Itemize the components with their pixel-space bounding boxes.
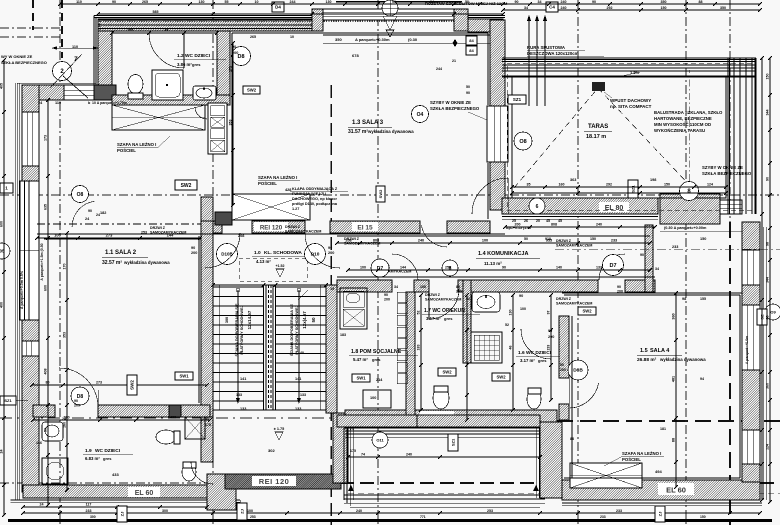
svg-text:SW2: SW2 xyxy=(582,309,592,314)
small box left 1 xyxy=(0,183,13,193)
bottom outer offset lines xyxy=(11,499,241,501)
svg-text:133: 133 xyxy=(295,407,301,411)
right wall outer lines xyxy=(762,227,764,500)
shelves on pom right wall xyxy=(397,292,407,302)
wall top window pier left xyxy=(312,9,323,31)
svg-text:124: 124 xyxy=(766,444,770,450)
svg-text:34: 34 xyxy=(394,285,398,289)
svg-text:244: 244 xyxy=(436,67,442,71)
svg-text:363: 363 xyxy=(570,178,576,182)
svg-text:117: 117 xyxy=(86,503,92,507)
label EL80 xyxy=(599,202,629,212)
svg-text:240: 240 xyxy=(561,6,567,10)
top roof edge line xyxy=(336,1,462,3)
svg-text:160: 160 xyxy=(559,183,565,187)
wall stairs left xyxy=(201,221,213,417)
window band right of pier xyxy=(720,200,742,214)
svg-text:74: 74 xyxy=(350,427,354,431)
door bubble D10 xyxy=(305,244,326,265)
patio right face lines xyxy=(536,428,538,498)
svg-text:O9: O9 xyxy=(770,309,776,314)
wall sala4 left top xyxy=(645,225,653,292)
kitchen counter pom xyxy=(340,288,367,329)
wall vert at stair hall right xyxy=(333,413,348,483)
svg-text:90: 90 xyxy=(519,294,523,298)
svg-text:D7: D7 xyxy=(377,266,384,272)
svg-text:428: 428 xyxy=(285,188,291,192)
shower wc16 xyxy=(471,332,502,363)
svg-text:+1.52: +1.52 xyxy=(275,264,284,268)
svg-text:481: 481 xyxy=(672,376,676,382)
svg-text:180: 180 xyxy=(63,422,67,428)
corridor upper dim chain right xyxy=(505,226,655,228)
box sz1 terrace xyxy=(628,180,638,198)
svg-text:678: 678 xyxy=(352,53,359,58)
svg-text:208: 208 xyxy=(238,234,244,238)
chimney pier block xyxy=(660,194,720,224)
bubble right edge xyxy=(765,304,780,320)
svg-text:PŁATFORMY SCHODOWEJ: PŁATFORMY SCHODOWEJ xyxy=(295,305,299,354)
door arc sala2 xyxy=(72,201,94,227)
svg-text:1.1 SALA 2: 1.1 SALA 2 xyxy=(105,250,137,256)
washer wc19 xyxy=(42,458,68,484)
svg-text:BALUSTRADA SZKLANA, SZKŁO: BALUSTRADA SZKLANA, SZKŁO xyxy=(654,110,723,115)
bubble 6 terrace xyxy=(529,198,545,214)
svg-text:SAMOZAMYKACZEM: SAMOZAMYKACZEM xyxy=(344,242,380,246)
small arc wc12 door lower xyxy=(195,107,207,119)
svg-text:5.47 m²: 5.47 m² xyxy=(353,357,368,362)
sz1 box bottom mid xyxy=(448,434,458,451)
corridor face lines xyxy=(337,276,655,278)
window left small xyxy=(22,341,39,356)
svg-text:gres: gres xyxy=(444,316,453,321)
shower wc12 xyxy=(152,70,183,100)
svg-text:90: 90 xyxy=(44,428,48,432)
svg-text:200: 200 xyxy=(560,368,566,372)
wall bottom sala4 xyxy=(562,480,760,500)
svg-text:SALA 4: SALA 4 xyxy=(650,348,670,354)
door bubble D8 top xyxy=(232,47,251,66)
toilet wc19 b xyxy=(182,463,196,481)
svg-text:KL. SCHODOWA: KL. SCHODOWA xyxy=(264,250,302,256)
svg-text:50: 50 xyxy=(311,317,316,323)
svg-text:273: 273 xyxy=(106,233,113,238)
svg-text:150: 150 xyxy=(766,74,770,80)
svg-text:240: 240 xyxy=(356,509,362,513)
wall terrace left xyxy=(490,20,505,210)
svg-text:24: 24 xyxy=(40,503,44,507)
svg-text:110: 110 xyxy=(76,0,82,4)
svg-text:26.88 m²: 26.88 m² xyxy=(637,357,657,363)
svg-text:25: 25 xyxy=(512,219,516,223)
patio corner arrows xyxy=(348,485,354,491)
door arc to terrace xyxy=(472,178,508,214)
svg-text:SZKŁA BEZPIECZNEGO: SZKŁA BEZPIECZNEGO xyxy=(702,171,752,176)
landing dashes xyxy=(239,258,307,281)
door arc D10B xyxy=(205,233,240,268)
svg-text:O8: O8 xyxy=(519,139,526,145)
svg-text:4.13 m²: 4.13 m² xyxy=(256,259,271,264)
svg-text:200: 200 xyxy=(232,51,238,55)
svg-text:21: 21 xyxy=(452,59,456,63)
window right wall upper xyxy=(742,250,760,285)
svg-text:DESZCZOWA 120x120cm: DESZCZOWA 120x120cm xyxy=(527,51,579,56)
svg-text:233: 233 xyxy=(672,245,678,249)
svg-text:35: 35 xyxy=(527,183,531,187)
dim chain right xyxy=(769,58,771,502)
svg-text:PŁATFORMY SCHODOWEJ: PŁATFORMY SCHODOWEJ xyxy=(240,305,244,354)
svg-text:133: 133 xyxy=(596,266,602,270)
sala3 left dim chain vertical xyxy=(232,43,234,205)
svg-text:200: 200 xyxy=(328,251,334,255)
svg-text:100: 100 xyxy=(370,396,376,400)
svg-text:90: 90 xyxy=(74,399,78,403)
svg-text:124: 124 xyxy=(707,183,713,187)
corridor end dim chain xyxy=(550,295,552,400)
svg-text:A parquet=+0.0m: A parquet=+0.0m xyxy=(745,336,749,364)
room face lines sala4 xyxy=(564,294,740,296)
wall wc12 bottom xyxy=(112,95,230,105)
svg-text:DRZWI Z: DRZWI Z xyxy=(425,293,441,297)
label sz1 left xyxy=(508,95,526,104)
dotted outer band top xyxy=(98,20,503,22)
grid axis line y483 left xyxy=(0,482,340,484)
wall top outer edge xyxy=(98,19,503,21)
svg-text:155: 155 xyxy=(700,297,706,301)
svg-text:± 1.75: ± 1.75 xyxy=(274,427,285,431)
sw2 box wc opiekun xyxy=(438,368,456,376)
svg-text:350: 350 xyxy=(720,6,726,10)
svg-text:771: 771 xyxy=(420,515,426,519)
svg-text:100: 100 xyxy=(520,307,526,311)
wall left lower xyxy=(22,356,39,492)
svg-text:94: 94 xyxy=(700,377,704,381)
svg-text:ŚCIANA DO POBIERANIA SE: ŚCIANA DO POBIERANIA SE xyxy=(289,304,294,357)
svg-text:360: 360 xyxy=(672,313,676,319)
top small box d4 xyxy=(272,2,284,12)
svg-text:90: 90 xyxy=(328,246,332,250)
svg-text:600: 600 xyxy=(0,221,4,227)
svg-text:6.83 m²: 6.83 m² xyxy=(85,456,100,461)
svg-text:34: 34 xyxy=(538,0,542,4)
svg-text:50: 50 xyxy=(466,85,470,89)
door arc wc12 xyxy=(149,33,184,68)
svg-text:90: 90 xyxy=(560,363,564,367)
top wall inner dense lines xyxy=(98,24,312,26)
label REI120 on wall xyxy=(254,222,288,231)
svg-text:344: 344 xyxy=(766,110,770,116)
section line x331 xyxy=(330,85,332,525)
svg-text:52: 52 xyxy=(417,311,421,315)
svg-text:24: 24 xyxy=(0,450,4,454)
svg-text:SZAFA NA LEŻNO I: SZAFA NA LEŻNO I xyxy=(117,142,156,147)
right secondary dim chain xyxy=(761,58,763,500)
svg-text:94: 94 xyxy=(430,0,434,4)
dim chain top xyxy=(60,3,760,5)
wall pom bottom xyxy=(337,415,417,427)
wall bottom step block xyxy=(207,474,236,510)
svg-text:1.2 WC DZIECI: 1.2 WC DZIECI xyxy=(177,53,211,59)
label EL60 bottom-left xyxy=(128,487,160,497)
shower wc19 xyxy=(185,417,205,439)
svg-text:10: 10 xyxy=(255,0,259,4)
wall stairs right xyxy=(326,285,337,413)
svg-text:214: 214 xyxy=(376,378,383,382)
svg-text:133: 133 xyxy=(236,393,242,397)
svg-text:141: 141 xyxy=(295,377,301,381)
svg-text:EI 15: EI 15 xyxy=(357,225,373,232)
svg-text:360: 360 xyxy=(766,383,770,389)
sw2 box sala3 mid xyxy=(376,186,385,202)
sw1 box pom xyxy=(352,374,370,382)
wall stub above stairs xyxy=(201,197,213,221)
svg-text:SZYBY W OKNIE ZE: SZYBY W OKNIE ZE xyxy=(702,165,743,170)
triple leader lines terrace top xyxy=(528,16,530,106)
section line thick y418 right xyxy=(557,420,780,422)
svg-text:A parquet=+0.0m 0.5%: A parquet=+0.0m 0.5% xyxy=(20,270,24,309)
svg-text:233: 233 xyxy=(600,515,606,519)
wc12 interior dim chain xyxy=(112,32,217,34)
svg-text:90: 90 xyxy=(191,246,195,250)
svg-text:166: 166 xyxy=(36,441,42,445)
svg-text:1.7 WC OPIEKUN: 1.7 WC OPIEKUN xyxy=(424,308,465,314)
wall topleft horizontal xyxy=(37,85,112,100)
corridor inner line top xyxy=(337,235,650,237)
sw2 box wc16 xyxy=(492,373,510,381)
circle left 05 xyxy=(0,243,10,259)
svg-text:SZ1: SZ1 xyxy=(4,398,12,403)
svg-text:74: 74 xyxy=(361,453,365,457)
wall EL60 horizontal xyxy=(345,410,557,428)
svg-text:REI 120: REI 120 xyxy=(260,225,283,232)
svg-text:SZ1: SZ1 xyxy=(513,97,522,102)
door arc sala4 xyxy=(570,383,599,408)
wall corridor top c xyxy=(330,221,420,233)
svg-text:173: 173 xyxy=(44,135,48,141)
inner face line sala3 top xyxy=(323,34,490,36)
svg-text:90: 90 xyxy=(766,177,770,181)
svg-text:183: 183 xyxy=(340,333,346,337)
door arc corridor D7 right xyxy=(599,254,625,280)
sw2 box sala2 xyxy=(127,375,137,395)
stair flight arrow left xyxy=(237,290,239,402)
svg-text:SZ1: SZ1 xyxy=(450,438,455,446)
svg-text:10: 10 xyxy=(290,35,294,39)
svg-text:133: 133 xyxy=(240,407,246,411)
svg-text:TARAS: TARAS xyxy=(588,124,608,130)
wall wc19 top a xyxy=(33,405,55,417)
svg-text:ZJ: ZJ xyxy=(657,512,662,517)
hall below stairs marker xyxy=(275,432,283,440)
svg-text:233: 233 xyxy=(547,345,551,351)
wall left mid block xyxy=(22,320,39,341)
sala2 bottom dim line xyxy=(32,384,207,386)
svg-text:prd0gt D140, podłączona: prd0gt D140, podłączona xyxy=(292,202,338,206)
patio edge lines bottom xyxy=(344,494,545,496)
svg-text:3.17 m²: 3.17 m² xyxy=(520,358,535,363)
window right wall big xyxy=(742,305,760,370)
wc16 vertical dim chain xyxy=(512,295,514,410)
svg-text:90: 90 xyxy=(617,285,621,289)
svg-text:150: 150 xyxy=(664,183,670,187)
grid axis lines xyxy=(59,0,61,525)
staircase side rails xyxy=(218,285,220,410)
wc16 left wall dim chain xyxy=(466,295,468,420)
sink wc12 xyxy=(193,86,216,100)
svg-text:34: 34 xyxy=(655,267,659,271)
zj box bottom far left xyxy=(117,506,127,522)
svg-text:SW2: SW2 xyxy=(378,189,383,198)
wall pom right xyxy=(406,292,415,415)
wall top window pier right xyxy=(454,9,468,31)
svg-text:SZAFA NA LEŻNO I: SZAFA NA LEŻNO I xyxy=(258,175,297,180)
dim chain wc19 xyxy=(33,419,210,421)
label REI120 xyxy=(252,476,296,486)
svg-text:O11: O11 xyxy=(376,437,384,442)
dim chain sala2 inner xyxy=(37,237,200,239)
wall REI120 xyxy=(225,474,341,489)
diamond tick + 84 box xyxy=(453,39,458,47)
svg-text:MIN WYSOKOŚĆ 110CM OD: MIN WYSOKOŚĆ 110CM OD xyxy=(654,122,711,127)
section marker top center xyxy=(382,0,398,16)
window gap topleft wall xyxy=(64,85,94,100)
grid axis line x730 upper xyxy=(729,0,731,222)
terrace 363 dims row xyxy=(512,192,726,194)
door arc D10 xyxy=(305,233,340,268)
svg-text:18.17 m: 18.17 m xyxy=(586,134,606,140)
wardrobe sala4 xyxy=(570,463,642,488)
svg-text:494: 494 xyxy=(655,469,662,474)
door bubble D7 right xyxy=(603,255,624,276)
svg-text:130: 130 xyxy=(509,310,513,316)
svg-text:D4: D4 xyxy=(275,5,281,10)
svg-text:97: 97 xyxy=(547,311,551,315)
svg-text:350: 350 xyxy=(661,0,667,4)
bottom sala4 outer offset lines xyxy=(562,502,762,504)
svg-text:SW2: SW2 xyxy=(130,380,135,390)
toilet wc19 a xyxy=(156,430,176,444)
terrace inner floor edge xyxy=(512,77,726,198)
svg-text:REI 120: REI 120 xyxy=(259,477,290,486)
staircase outline xyxy=(213,285,326,410)
wall bottom left xyxy=(23,485,212,498)
wall vert step to sala4 xyxy=(540,422,562,498)
svg-text:90: 90 xyxy=(640,253,644,257)
window O8 bubble xyxy=(514,132,532,150)
svg-text:52: 52 xyxy=(466,297,470,301)
svg-text:635: 635 xyxy=(44,204,48,210)
svg-text:253: 253 xyxy=(250,515,256,519)
svg-text:100: 100 xyxy=(482,239,488,243)
zj box bottom left xyxy=(237,503,247,520)
top secondary dim row right xyxy=(503,9,760,11)
section stub dashes topleft xyxy=(61,0,63,58)
svg-text:ZJ: ZJ xyxy=(119,512,124,517)
svg-text:292: 292 xyxy=(606,183,612,187)
svg-text:gres: gres xyxy=(372,357,381,362)
svg-text:133: 133 xyxy=(300,393,306,397)
svg-text:233: 233 xyxy=(86,509,92,513)
svg-text:90: 90 xyxy=(502,266,506,270)
svg-text:88: 88 xyxy=(165,29,169,33)
svg-text:50: 50 xyxy=(524,237,528,241)
svg-text:DRZWI Z: DRZWI Z xyxy=(556,297,572,301)
wall sala4 left lower xyxy=(559,404,569,420)
patio edge lines left xyxy=(343,428,345,500)
roof drain xyxy=(592,82,605,91)
terrace slope diagonals xyxy=(514,88,598,188)
svg-text:200: 200 xyxy=(456,290,462,294)
dash line y493 right xyxy=(348,492,780,494)
door arc wc19 to hall xyxy=(191,462,213,484)
svg-text:SW2: SW2 xyxy=(496,375,506,380)
svg-text:6: 6 xyxy=(536,204,539,210)
svg-text:SAMOZAMYKACZEM: SAMOZAMYKACZEM xyxy=(556,244,592,248)
svg-text:233: 233 xyxy=(611,239,617,243)
svg-text:253: 253 xyxy=(445,266,451,270)
wall wc19 top b xyxy=(98,405,210,417)
toilet wc12 xyxy=(128,75,143,94)
pier block xyxy=(94,85,116,100)
room face lines sala3 xyxy=(232,32,488,34)
svg-text:98: 98 xyxy=(682,297,686,301)
wall wc16 vert xyxy=(463,280,471,363)
svg-text:182: 182 xyxy=(100,211,106,215)
svg-text:DRZWI Z: DRZWI Z xyxy=(344,237,360,241)
svg-text:90: 90 xyxy=(392,0,396,4)
svg-text:45: 45 xyxy=(558,219,562,223)
svg-text:wykładzina dywanowa: wykładzina dywanowa xyxy=(123,260,170,265)
svg-text:90: 90 xyxy=(205,417,209,421)
svg-text:130: 130 xyxy=(326,0,332,4)
wall step left of WC xyxy=(98,31,112,100)
svg-text:POŚCIEL: POŚCIEL xyxy=(622,457,641,462)
door bubble D7 left xyxy=(371,259,389,277)
svg-text:SAMOZAMYKACZEM: SAMOZAMYKACZEM xyxy=(425,298,461,302)
svg-text:10 A parquet=+1.75m: 10 A parquet=+1.75m xyxy=(92,101,127,105)
svg-text:A parquet=+0.30m: A parquet=+0.30m xyxy=(355,37,390,42)
svg-text:D8B: D8B xyxy=(573,368,583,374)
wall stairs left lower xyxy=(201,417,213,462)
window left long xyxy=(20,181,39,320)
terrace band extra line xyxy=(502,67,756,69)
svg-text:265: 265 xyxy=(128,29,134,33)
svg-text:SW2: SW2 xyxy=(247,88,257,93)
cabinet column below wc12 xyxy=(208,103,227,154)
sink wc19 xyxy=(42,422,63,441)
wall corridor bottom b xyxy=(414,280,429,292)
svg-text:170: 170 xyxy=(205,423,211,427)
svg-text:240: 240 xyxy=(406,453,412,457)
section line y483 bold right xyxy=(340,482,780,484)
sw2 box sala3 xyxy=(175,180,197,190)
svg-text:170: 170 xyxy=(63,264,67,270)
dash line sala4 upper xyxy=(555,248,780,250)
svg-text:350: 350 xyxy=(335,37,342,42)
opening dash line sala2 top xyxy=(37,223,201,225)
svg-text:34: 34 xyxy=(524,6,528,10)
svg-text:88: 88 xyxy=(672,438,676,442)
svg-text:198: 198 xyxy=(650,178,656,182)
svg-text:SW1: SW1 xyxy=(179,374,189,379)
svg-text:SZYBY W OKNIE ZE: SZYBY W OKNIE ZE xyxy=(430,100,471,105)
dim chain left xyxy=(3,60,5,515)
bottom heavy bar xyxy=(8,519,772,522)
svg-text:183: 183 xyxy=(417,345,421,351)
zj box bottom right xyxy=(655,506,665,522)
stair break mark xyxy=(298,290,308,300)
dim chain left2 xyxy=(47,100,49,505)
